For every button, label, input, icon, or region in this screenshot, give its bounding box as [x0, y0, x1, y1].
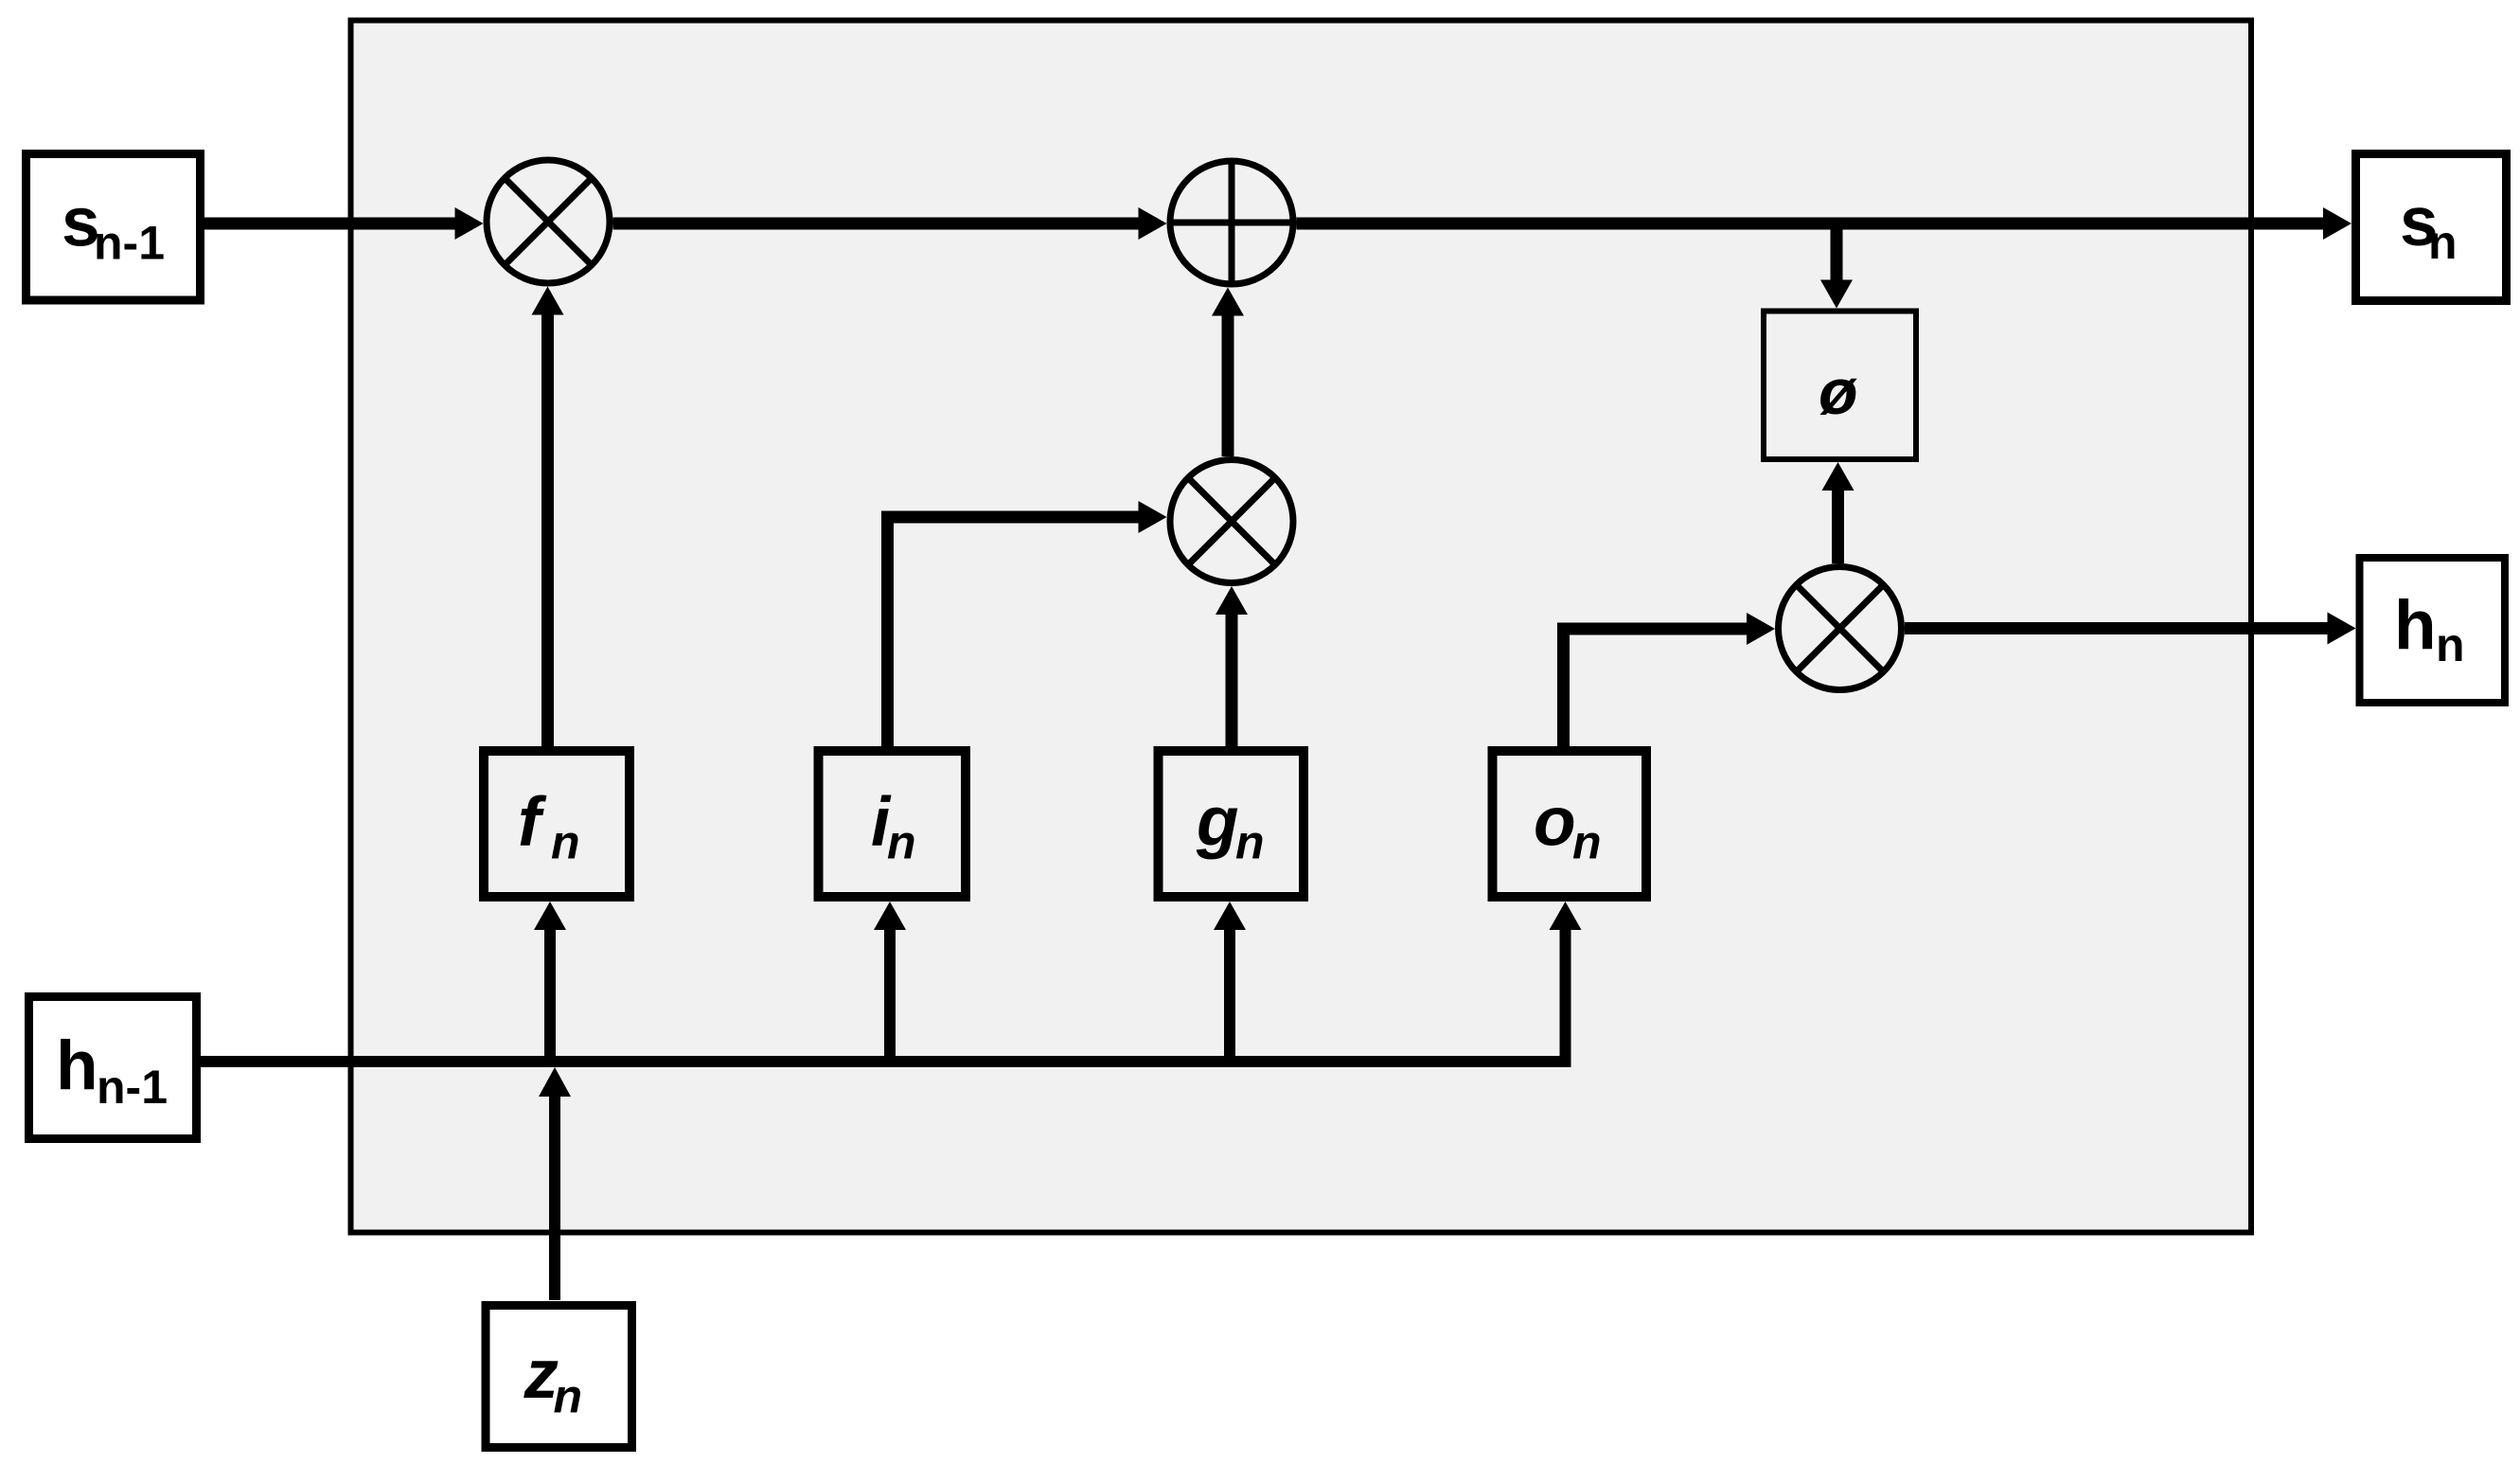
multiply node X3 — [1779, 567, 1902, 690]
wire z_n to trunk junction — [539, 1067, 571, 1300]
box phi — [1764, 312, 1916, 460]
wire i_n feed from trunk — [874, 902, 906, 1056]
wire X3 up to phi box — [1822, 462, 1855, 563]
wire h_{n-1} trunk to o_n — [201, 902, 1582, 1067]
box g_n — [1159, 751, 1304, 897]
wire i_n elbow to multiply node X2 — [888, 501, 1167, 746]
wire o_n elbow to multiply node X3 — [1564, 613, 1776, 746]
multiply node X1 — [487, 160, 610, 283]
branch wire from s-line down to phi box — [1820, 223, 1853, 309]
wire f_n to multiply node X1 — [532, 287, 564, 747]
box f_n — [484, 751, 630, 897]
add node — [1170, 161, 1293, 284]
svg-text:ø: ø — [1819, 356, 1858, 428]
wire s_{n-1} to multiply node X1 — [204, 207, 484, 240]
LSTM cell body rectangle — [351, 21, 2252, 1233]
wire X3 to h_n — [1905, 613, 2356, 645]
box o_n — [1493, 751, 1647, 897]
box z_n — [486, 1306, 632, 1448]
box h_{n-1} — [29, 997, 197, 1139]
box h_n — [2360, 558, 2506, 703]
wire g_n to multiply node X2 — [1216, 586, 1248, 746]
box s_{n-1} — [27, 154, 201, 301]
multiply node X2 — [1170, 460, 1293, 583]
wire g_n feed from trunk — [1214, 902, 1246, 1056]
wire add node to s_n — [1297, 207, 2352, 240]
box s_n — [2356, 154, 2507, 301]
box i_n — [819, 751, 967, 897]
wire X2 to add node — [1212, 288, 1244, 457]
wire X1 to add node — [613, 207, 1167, 240]
wire junction to f_n — [534, 902, 566, 1057]
